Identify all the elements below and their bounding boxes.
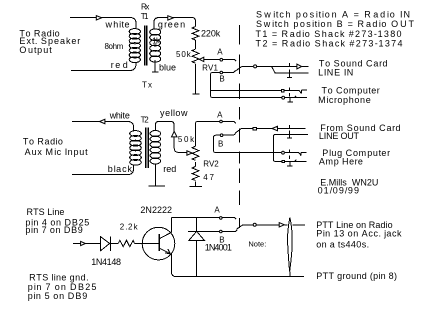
resistor 2.2k (118, 240, 134, 246)
transformer T1 secondary winding (150, 29, 161, 62)
svg-text:1N4001: 1N4001 (205, 242, 232, 252)
switch 3 B stub (223, 230, 238, 232)
svg-text:01/09/99: 01/09/99 (318, 185, 359, 195)
wire resistor to base (135, 243, 159, 245)
svg-text:RV1: RV1 (202, 64, 218, 73)
wire: RV1 wiper to node A (200, 60, 236, 62)
amp connector circle contact (282, 151, 285, 154)
svg-text:PTT ground (pin 8): PTT ground (pin 8) (316, 271, 397, 281)
switch 2 contact A tick (234, 122, 236, 124)
T2 red ground bar (149, 185, 165, 187)
wire: mic connector top lead (211, 89, 281, 91)
wire: radio aux mic white lead (72, 122, 134, 131)
switch 3 arm (237, 225, 253, 229)
amp plug boundary (dashed) (288, 150, 290, 159)
arrow on speaker top lead (96, 16, 101, 20)
arrow on white lead (left) (100, 119, 105, 123)
amp plug ground (287, 162, 293, 166)
arrow on PTT wire (279, 223, 284, 227)
node B (switch 2) (220, 134, 223, 137)
switch 2 pole square (253, 127, 256, 130)
amp connector bottom lead right (285, 160, 307, 162)
switch 2 arm (235, 129, 252, 134)
line-out ground lead and run to amp plug (273, 134, 308, 161)
svg-text:2.2k: 2.2k (120, 223, 139, 232)
svg-text:RV2: RV2 (203, 159, 219, 168)
arrow on RTS input (81, 241, 86, 245)
transistor emitter arrowhead (165, 249, 171, 254)
arrow on green wire (168, 16, 174, 20)
mic connector square contact (281, 90, 284, 92)
svg-text:LINE OUT: LINE OUT (319, 131, 360, 141)
amp connector square contact (282, 160, 284, 162)
node A (switch 3) (220, 217, 223, 220)
svg-text:Output: Output (19, 45, 52, 55)
diode 1N4001 vertical lead top (196, 217, 198, 231)
resistor 220k (192, 27, 199, 41)
wire: switch 1 pole to line-in plug (257, 65, 297, 67)
line-out arrow (left) (272, 126, 278, 130)
wire 47 to ground (195, 182, 197, 187)
wire: switch 2 pole to line-out plug (257, 128, 305, 130)
RV1 bottom end bar (192, 93, 199, 95)
svg-text:Amp Here: Amp Here (319, 157, 363, 167)
svg-text:Rx: Rx (141, 3, 149, 12)
svg-text:50k: 50k (178, 135, 195, 144)
diode 1N4001 cathode bar and B wire (188, 230, 219, 232)
wire: collector rail to switch 3 (171, 217, 236, 219)
svg-text:Switch position A = Radio IN: Switch position A = Radio IN (256, 10, 410, 20)
mic plug ground (287, 98, 293, 102)
svg-text:red: red (163, 164, 176, 174)
wire: green lead from T1 secondary (154, 18, 196, 29)
potentiometer RV1 (192, 49, 199, 63)
wire arrow to plug (285, 224, 288, 226)
wire: yellow lead from T2 primary (156, 122, 187, 153)
RV2 wiper arrow (187, 151, 192, 155)
svg-text:Note:: Note: (248, 240, 266, 249)
transistor collector (159, 217, 171, 238)
svg-text:To Radio: To Radio (23, 137, 63, 147)
diode D1 1N4148 (100, 237, 110, 251)
svg-text:B: B (219, 75, 224, 84)
svg-text:pin 5 on DB9: pin 5 on DB9 (28, 291, 88, 301)
switch 3 pole (253, 223, 256, 226)
transformer T2 secondary winding (130, 131, 142, 166)
PTT plug bottom tail (289, 272, 291, 277)
svg-text:1N4148: 1N4148 (91, 257, 121, 267)
wire: blue lead from T1 secondary (154, 60, 156, 72)
svg-text:A: A (214, 206, 220, 215)
diode 1N4001 bottom lead (196, 241, 198, 277)
wire between 220k and RV1 (195, 40, 197, 49)
wire RTS arrow to diode (86, 243, 101, 245)
svg-text:Pin 13 on Acc. jack: Pin 13 on Acc. jack (316, 229, 402, 239)
svg-text:1k: 1k (152, 37, 161, 46)
svg-text:A: A (217, 111, 223, 120)
wire: RTS input (73, 243, 80, 245)
wire: PTT plug to label (292, 224, 305, 226)
transistor base bar (158, 234, 160, 251)
transistor emitter (159, 248, 304, 276)
svg-text:yellow: yellow (160, 108, 188, 118)
svg-text:white: white (105, 20, 130, 30)
resistor 47 (192, 166, 199, 180)
mic connector circle contact (282, 96, 285, 99)
wire RV2 to 47 (195, 162, 197, 166)
wire: node A switch2 to RV2 top (196, 122, 235, 147)
mic connector top lead right jack contact (285, 90, 307, 93)
svg-text:green: green (158, 19, 185, 29)
svg-text:A: A (217, 48, 223, 57)
svg-text:Switch position B = Radio OUT: Switch position B = Radio OUT (256, 19, 415, 29)
switch 1 pole (254, 65, 257, 68)
line-out plug ground (287, 135, 292, 138)
wire diode to resistor (110, 243, 118, 245)
ground bar below 47 (190, 186, 202, 188)
svg-text:Aux Mic Input: Aux Mic Input (25, 147, 89, 157)
wire: red lead from T2 primary to ground (155, 163, 157, 185)
mic connector bottom lead right (285, 96, 307, 98)
node B (switch 1) (220, 71, 223, 74)
arrow on yellow lead (up) (172, 131, 178, 137)
diode 1N4001 triangle (189, 231, 205, 240)
line-in ground tap (272, 67, 309, 73)
PTT plug body (lens) (288, 218, 293, 272)
svg-text:T1: T1 (141, 12, 149, 21)
wire after line-in arrow (302, 65, 309, 67)
node A (switch 2) (220, 120, 223, 123)
line-out plug boundary (dashed) (288, 125, 290, 134)
svg-text:Microphone: Microphone (318, 95, 371, 105)
node A (switch 1) (220, 58, 223, 61)
svg-text:47: 47 (203, 173, 214, 182)
RV1 wiper arrow (199, 57, 203, 61)
ganged switch dashed link (239, 25, 241, 228)
svg-text:white: white (109, 111, 130, 121)
svg-text:black: black (108, 164, 133, 174)
amp connector top lead right jack contact (285, 152, 307, 155)
switch 1 arm (235, 66, 253, 71)
svg-text:RTS Line: RTS Line (27, 207, 65, 217)
transformer T1 core (145, 26, 147, 66)
svg-text:B: B (218, 140, 223, 149)
svg-text:2N2222: 2N2222 (140, 205, 172, 215)
svg-text:LINE IN: LINE IN (318, 68, 353, 78)
mic plug boundary (dashed) (288, 88, 290, 97)
node B (switch 1) stub and run to mic bottom lead (211, 71, 282, 98)
line-in plug boundary (dashed) (288, 63, 290, 72)
svg-text:red: red (111, 60, 128, 70)
transistor Q1 2N2222 circle (142, 227, 175, 260)
wire: radio aux mic black lead (72, 165, 134, 174)
wire: radio ext speaker top lead (white) (70, 18, 136, 29)
svg-text:pin 7 on DB9: pin 7 on DB9 (25, 225, 82, 235)
transformer T1 primary winding (129, 29, 140, 63)
line-in plug ground (287, 73, 292, 78)
blue lead end bar (152, 71, 159, 73)
wire: radio ext speaker bottom lead (red) (71, 62, 136, 71)
transformer T2 primary winding (150, 131, 161, 165)
svg-text:220k: 220k (201, 29, 221, 39)
svg-text:blue: blue (159, 63, 176, 73)
svg-text:T2: T2 (141, 116, 150, 125)
wire: switch 3 pole to PTT plug (257, 224, 279, 226)
svg-text:8ohm: 8ohm (105, 42, 124, 51)
line-in arrow (297, 64, 302, 69)
svg-text:50k: 50k (176, 50, 192, 59)
node B (switch 3) (220, 230, 223, 233)
transformer T2 core (146, 128, 148, 169)
svg-text:on a ts440s.: on a ts440s. (316, 239, 369, 249)
wire RV1 bottom lead (195, 64, 197, 94)
node B (switch 2) stub and run to amp top lead (214, 133, 282, 152)
potentiometer RV2 (192, 146, 199, 160)
